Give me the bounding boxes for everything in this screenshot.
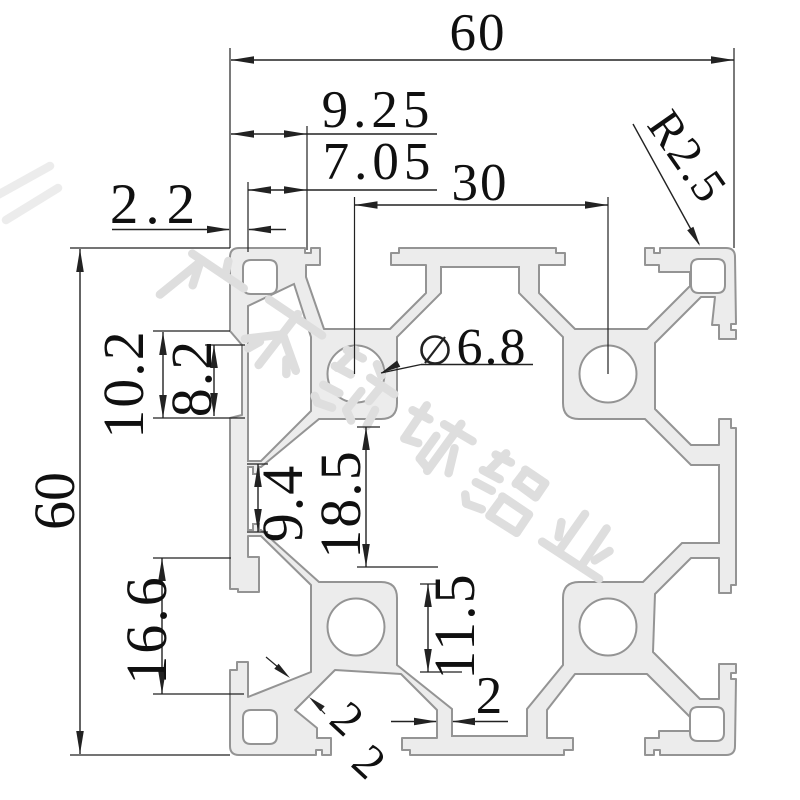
svg-text:9.25: 9.25 xyxy=(322,81,435,139)
svg-text:10.2: 10.2 xyxy=(91,329,156,439)
svg-text:9.4: 9.4 xyxy=(250,464,315,543)
svg-text:60: 60 xyxy=(22,472,87,530)
svg-text:2: 2 xyxy=(476,667,505,725)
svg-text:8.2: 8.2 xyxy=(159,339,224,418)
svg-text:11.5: 11.5 xyxy=(422,572,487,679)
svg-text:18.5: 18.5 xyxy=(308,449,373,559)
svg-text:2.2: 2.2 xyxy=(110,173,202,236)
svg-text:16.6: 16.6 xyxy=(114,575,179,685)
svg-text:6.8: 6.8 xyxy=(457,319,528,376)
svg-text:7.05: 7.05 xyxy=(323,133,436,191)
svg-text:30: 30 xyxy=(452,154,509,212)
svg-text:60: 60 xyxy=(450,4,507,62)
